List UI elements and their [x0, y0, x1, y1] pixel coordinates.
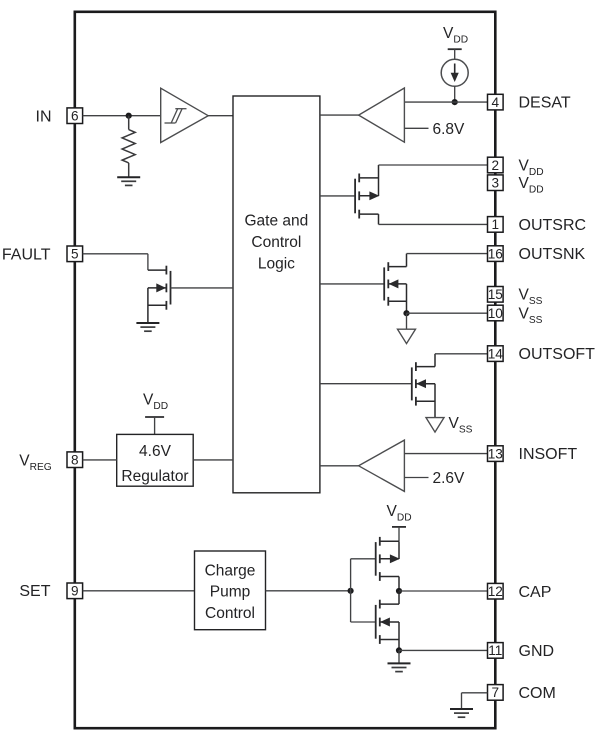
transistor Q1 (OUTSRC source p-MOSFET) — [355, 174, 378, 219]
VSS supply symbol (Q3) — [426, 418, 444, 433]
svg-text:1: 1 — [492, 217, 500, 232]
wire 2.6V reference stub — [404, 477, 428, 479]
wire logic to Q2 gate — [320, 283, 385, 285]
comparator U3 (DESAT, 6.8V) — [359, 88, 405, 142]
wire Q3 drain to pin 14 — [435, 353, 488, 355]
svg-text:Regulator: Regulator — [121, 468, 188, 485]
svg-text:6: 6 — [71, 109, 79, 124]
wire FAULT pin right — [83, 253, 148, 255]
junction node CAP — [396, 588, 402, 594]
wire logic to Q1 gate — [320, 195, 356, 197]
svg-text:Control: Control — [251, 234, 301, 251]
wire DESAT node to pin 4 — [404, 101, 487, 103]
svg-text:SET: SET — [19, 583, 50, 600]
pin 14 (OUTSOFT) — [488, 346, 504, 362]
pin label OUTSOFT — [519, 346, 596, 363]
ground symbol at GND — [388, 663, 411, 671]
svg-text:GND: GND — [519, 643, 555, 660]
svg-text:FAULT: FAULT — [2, 246, 51, 263]
block U6 Charge Pump Control — [195, 551, 266, 630]
pin 11 (GND) — [488, 643, 504, 659]
wire comparator output to logic block — [320, 114, 359, 116]
pin 3 (VDD) — [488, 175, 504, 191]
wire buffer output to logic block — [208, 115, 233, 117]
wire pin 8 to regulator — [83, 459, 117, 461]
svg-text:7: 7 — [492, 685, 500, 700]
wire Q5 source-body tie — [398, 541, 400, 559]
ground symbol at COM — [450, 709, 473, 717]
wire Q2 source to pin 10 — [407, 312, 488, 314]
svg-text:IN: IN — [36, 109, 52, 126]
svg-text:8: 8 — [71, 453, 79, 468]
pin label OUTSNK — [519, 246, 586, 263]
net label IN — [36, 109, 52, 126]
wire Q1 drain-body tie — [378, 165, 380, 196]
transistor Q2 (OUTSNK sink n-MOSFET) — [384, 262, 406, 306]
pin label OUTSRC — [519, 217, 587, 234]
wire Q4 body-source to ground — [147, 288, 149, 323]
svg-text:OUTSOFT: OUTSOFT — [519, 346, 596, 363]
current source I1 (DESAT charge) — [441, 59, 468, 86]
wire IN pin to buffer input — [83, 115, 161, 117]
svg-text:11: 11 — [488, 643, 502, 658]
net label SET — [19, 583, 50, 600]
wire Q1 source to pin 1 — [379, 223, 488, 225]
transistor Q4 (FAULT open-drain n-MOSFET) — [148, 266, 171, 310]
block U5 4.6V Regulator — [117, 434, 194, 486]
junction node gate bus — [348, 588, 354, 594]
junction node IN — [126, 113, 132, 119]
wire CAP node to pin 12 — [399, 590, 488, 592]
pin 10 (VSS) — [488, 305, 504, 321]
svg-text:Gate and: Gate and — [245, 213, 309, 230]
wire Q2 source to VSS symbol — [406, 313, 408, 329]
block U2 Gate and Control Logic — [233, 96, 320, 493]
svg-text:2: 2 — [492, 158, 500, 173]
junction node VSS (Q2 source) — [403, 310, 409, 316]
svg-text:Logic: Logic — [258, 256, 295, 273]
svg-text:Pump: Pump — [210, 584, 251, 601]
pin label CAP — [519, 584, 552, 601]
pin 5 (FAULT) — [67, 246, 83, 262]
pin 8 (VREG) — [67, 452, 83, 468]
svg-text:INSOFT: INSOFT — [519, 446, 578, 463]
schmitt trigger buffer U1 (IN) — [161, 88, 209, 142]
VDD power symbol (charge pump) — [392, 527, 406, 541]
wire GND node to pin 11 — [399, 649, 488, 651]
pin 2 (VDD) — [488, 157, 504, 173]
VSS supply symbol (Q2) — [398, 329, 416, 343]
wire GND node down to ground — [398, 650, 400, 663]
pin 12 (CAP) — [488, 583, 504, 599]
svg-text:9: 9 — [71, 584, 79, 599]
pin label GND — [519, 643, 555, 660]
svg-text:14: 14 — [488, 346, 504, 361]
wire gate bus vertical — [350, 559, 352, 622]
pin label COM — [519, 685, 556, 702]
wire logic to Q3 gate — [320, 383, 412, 385]
svg-text:COM: COM — [519, 685, 556, 702]
wire Q6 body-source tie — [398, 622, 400, 650]
svg-text:12: 12 — [488, 584, 503, 599]
wire pin 13 to comparator input — [404, 453, 487, 455]
svg-text:CAP: CAP — [519, 584, 552, 601]
svg-text:16: 16 — [488, 246, 503, 261]
net label FAULT — [2, 246, 51, 263]
svg-text:10: 10 — [488, 306, 504, 321]
wire Q3 drain up — [434, 354, 436, 367]
VDD power symbol (regulator) — [145, 417, 164, 434]
wire Q4 gate to logic block — [171, 287, 234, 289]
pin label DESAT — [519, 95, 571, 112]
pin label INSOFT — [519, 446, 578, 463]
VDD label (charge pump) — [387, 503, 412, 523]
VDD label (DESAT current source) — [443, 25, 468, 45]
wire FAULT down to Q4 drain — [147, 254, 149, 270]
VDD power symbol (DESAT) — [448, 49, 462, 59]
ground symbol at Q4 source — [136, 323, 159, 331]
wire Q3 body-source tie — [434, 384, 436, 418]
wire comparator U4 output to logic block — [320, 465, 359, 467]
pin 16 (OUTSNK) — [488, 246, 504, 262]
ground symbol at R1 — [117, 177, 140, 185]
wire bus to Q5 gate — [351, 558, 377, 560]
value label 6.8V — [433, 121, 466, 138]
pin label VSS (pin 15) — [519, 287, 543, 307]
wire 6.8V reference stub — [404, 127, 428, 129]
wire regulator to logic block — [193, 459, 233, 461]
wire Q6 drain to CAP node — [398, 591, 400, 604]
wire Q2 body-source tie — [406, 284, 408, 313]
svg-text:2.6V: 2.6V — [433, 470, 466, 487]
pin label VDD (pin 2) — [519, 158, 544, 178]
svg-text:13: 13 — [488, 446, 503, 461]
svg-text:OUTSRC: OUTSRC — [519, 217, 587, 234]
IC package boundary — [75, 12, 496, 728]
wire current source to DESAT node — [454, 86, 456, 102]
pin 15 (VSS) — [488, 287, 504, 303]
svg-text:Control: Control — [205, 605, 255, 622]
svg-text:Charge: Charge — [205, 562, 256, 579]
wire COM down to ground — [461, 693, 463, 709]
svg-text:15: 15 — [488, 287, 503, 302]
VSS label (Q3) — [449, 415, 473, 435]
pin 6 (IN) — [67, 108, 83, 124]
transistor Q3 (OUTSOFT n-MOSFET) — [412, 362, 435, 405]
wire Q2 drain to pin 16 — [407, 253, 488, 255]
wire Q1 to pin 2 — [379, 164, 488, 166]
wire Q2 drain up — [406, 254, 408, 267]
pin label VDD (pin 3) — [519, 175, 544, 195]
value label 2.6V — [433, 470, 466, 487]
svg-text:4.6V: 4.6V — [139, 443, 172, 460]
svg-text:DESAT: DESAT — [519, 95, 571, 112]
junction node GND — [396, 647, 402, 653]
wire Q1 source down — [378, 214, 380, 224]
pin 7 (COM) — [488, 685, 504, 701]
transistor Q6 (charge pump n-MOSFET) — [376, 600, 399, 644]
net label VREG — [19, 453, 51, 473]
svg-text:4: 4 — [492, 95, 500, 110]
wire bus to Q6 gate — [351, 621, 377, 623]
svg-text:5: 5 — [71, 247, 79, 262]
transistor Q5 (charge pump p-MOSFET) — [376, 537, 399, 581]
pin 9 (SET) — [67, 583, 83, 599]
svg-text:6.8V: 6.8V — [433, 121, 466, 138]
resistor R1 (IN pull-down) — [122, 116, 135, 177]
pin 13 (INSOFT) — [488, 446, 504, 462]
wire Q5 drain to CAP node — [398, 577, 400, 592]
junction node DESAT — [452, 99, 458, 105]
wire pin 9 to charge pump block — [83, 590, 195, 592]
wire pin 7 left — [462, 692, 488, 694]
pin 1 (OUTSRC) — [488, 217, 504, 233]
wire charge pump output to gate bus — [266, 590, 351, 592]
pin label VSS (pin 10) — [519, 306, 543, 326]
comparator U4 (INSOFT, 2.6V) — [359, 440, 405, 491]
VDD label (regulator) — [143, 392, 168, 412]
svg-text:3: 3 — [492, 176, 500, 191]
svg-text:OUTSNK: OUTSNK — [519, 246, 586, 263]
pin 4 (DESAT) — [488, 94, 504, 110]
